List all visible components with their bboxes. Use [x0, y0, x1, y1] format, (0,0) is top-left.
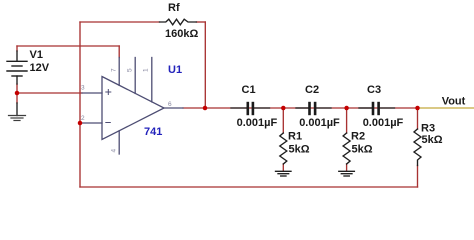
- svg-text:0.001µF: 0.001µF: [237, 117, 278, 129]
- svg-text:C2: C2: [305, 84, 319, 96]
- svg-text:R1: R1: [288, 130, 302, 142]
- svg-text:7: 7: [111, 68, 118, 72]
- svg-text:2: 2: [81, 115, 85, 122]
- svg-text:0.001µF: 0.001µF: [299, 117, 340, 129]
- svg-text:U1: U1: [168, 64, 182, 76]
- svg-text:741: 741: [144, 126, 162, 138]
- svg-text:160kΩ: 160kΩ: [165, 28, 198, 40]
- svg-text:0.001µF: 0.001µF: [363, 117, 404, 129]
- svg-text:5: 5: [127, 68, 134, 72]
- svg-text:1: 1: [143, 68, 150, 72]
- svg-text:3: 3: [81, 85, 85, 92]
- svg-text:R3: R3: [421, 122, 435, 134]
- svg-text:V1: V1: [30, 49, 43, 61]
- svg-text:R2: R2: [351, 130, 365, 142]
- svg-text:5kΩ: 5kΩ: [422, 134, 443, 146]
- svg-text:C3: C3: [367, 84, 381, 96]
- svg-text:Rf: Rf: [168, 2, 180, 14]
- svg-text:6: 6: [168, 101, 172, 108]
- svg-text:C1: C1: [242, 84, 256, 96]
- svg-text:4: 4: [111, 149, 118, 153]
- svg-text:12V: 12V: [30, 62, 50, 74]
- svg-text:Vout: Vout: [442, 96, 466, 108]
- svg-text:5kΩ: 5kΩ: [289, 143, 310, 155]
- svg-text:5kΩ: 5kΩ: [352, 143, 373, 155]
